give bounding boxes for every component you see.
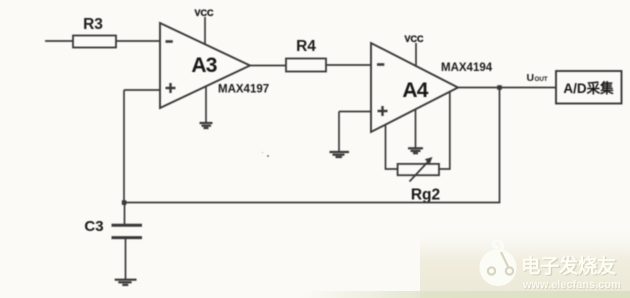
op-amp A4 [371, 43, 458, 132]
svg-text:U: U [527, 72, 535, 84]
svg-text:OUT: OUT [535, 76, 548, 83]
svg-text:www.elecfans.com: www.elecfans.com [522, 279, 621, 291]
wire A3 output to R4 [250, 65, 286, 67]
wire input stub [45, 40, 73, 42]
ground A4 non-inverting input [330, 152, 350, 157]
VCC A4 [404, 34, 424, 66]
resistor R4 [286, 38, 326, 72]
capacitor C3 [84, 203, 142, 279]
svg-text:C3: C3 [84, 218, 103, 235]
svg-text:R3: R3 [83, 16, 103, 33]
wire A4 output [458, 87, 556, 89]
wire Rg2 left gain pin [386, 125, 398, 169]
label Uout [527, 72, 548, 84]
svg-text:VCC: VCC [194, 8, 214, 18]
svg-text:MAX4194: MAX4194 [441, 62, 493, 74]
resistor Rg2 (variable) [398, 157, 441, 204]
watermark logo [480, 241, 517, 286]
watermark title [521, 255, 618, 279]
op-amp A3 [160, 23, 250, 108]
svg-text:MAX4197: MAX4197 [218, 84, 269, 96]
svg-text:A3: A3 [191, 54, 216, 77]
wire A3 non-inverting input [124, 90, 160, 203]
node C3 junction [122, 200, 127, 205]
VCC A3 [194, 8, 214, 44]
stray scan speck [267, 155, 270, 158]
svg-text:Rg2: Rg2 [411, 187, 440, 204]
ground A4 V- [408, 109, 423, 153]
ground A3 V- [200, 86, 213, 128]
svg-text:A4: A4 [402, 79, 428, 102]
resistor R3 [73, 16, 116, 48]
svg-text:VCC: VCC [404, 34, 424, 44]
node output junction [497, 85, 502, 90]
watermark url [522, 279, 622, 292]
wire R3 to A3 inverting input [116, 40, 160, 42]
wire A4 non-inverting input [339, 112, 371, 152]
svg-text:电子发烧友: 电子发烧友 [521, 255, 617, 278]
svg-text:A/D采集: A/D采集 [563, 80, 614, 96]
wire Rg2 right gain pin [439, 92, 450, 169]
ground C3 [115, 280, 137, 285]
svg-text:R4: R4 [296, 38, 316, 55]
wire R4 to A4 inverting input [326, 64, 371, 66]
wire feedback from output node [124, 88, 500, 203]
block A/D sampling [556, 71, 622, 104]
